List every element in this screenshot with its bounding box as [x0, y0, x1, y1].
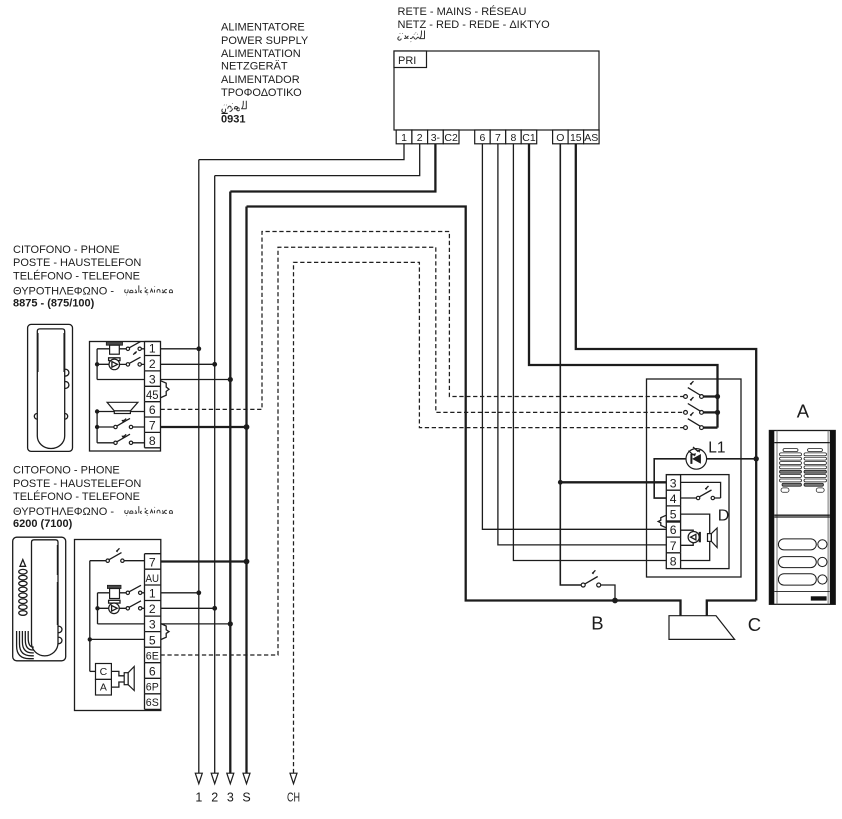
bracket at terminals 5-6 (unit D) [658, 515, 666, 527]
svg-text:POWER SUPPLY: POWER SUPPLY [221, 35, 309, 47]
label: phone 8875 multilingual caption [13, 244, 141, 298]
svg-text:45: 45 [146, 388, 159, 402]
svg-text:3-: 3- [431, 132, 441, 144]
svg-text:6E: 6E [146, 651, 159, 663]
terminal 2 (PS) [412, 130, 428, 144]
wire: lamp L1 to riser 15 [707, 458, 757, 460]
svg-text:7: 7 [495, 132, 501, 144]
terminal 1 (6200) [145, 585, 161, 601]
svg-text:8875 - (875/100): 8875 - (875/100) [13, 297, 95, 309]
junction: riser 1 at phone 8875 terminal 1 [196, 346, 201, 351]
arrowhead riser S [243, 773, 250, 784]
wire: speaker row to terminal 6 (8875) [97, 411, 144, 413]
junction: riser 2 at phone 8875 terminal 2 [212, 362, 217, 367]
wire: common rail top (8875) [96, 349, 98, 380]
phone 6200 handset drawing [13, 537, 66, 661]
terminal 7 (6200) [145, 554, 161, 570]
arrowhead riser 3 [227, 773, 234, 784]
terminal C2 (PS) [443, 130, 459, 144]
label: 0931 power supply code [221, 113, 245, 125]
switch to terminal 1 (6200) [126, 585, 144, 594]
wire: riser 1 [198, 160, 200, 774]
svg-text:ALIMENTATORE: ALIMENTATORE [221, 22, 305, 34]
switch to terminal 8 (8875) [97, 434, 144, 444]
switch to terminal 2 (6200) [126, 601, 144, 610]
junction: rail at receiver row (8875) [95, 362, 99, 366]
svg-text:CITOFONO - PHONE: CITOFONO - PHONE [13, 465, 120, 477]
arrowhead riser CH [290, 773, 297, 784]
phone 6200 body outline [75, 540, 161, 711]
junction: rail at switch row 7 (8875) [95, 425, 99, 429]
terminal 7 (8875) [145, 417, 161, 433]
svg-text:6S: 6S [146, 697, 159, 709]
junction: riser 2 at phone 6200 terminal 2 [212, 606, 217, 611]
terminal 3 (unit D) [666, 475, 680, 491]
svg-text:8: 8 [149, 434, 156, 448]
call switch 1 [684, 381, 718, 398]
entrance panel A faceplate [769, 431, 835, 605]
svg-text:7: 7 [149, 555, 156, 569]
terminal 6 (8875) [145, 402, 161, 417]
svg-text:6: 6 [479, 132, 485, 144]
wire: phone 8875 terminal 3 to riser 3 [161, 379, 231, 381]
label: arabic "mains" (drawn glyph approximation) [398, 31, 425, 42]
wire: PS 7 to door unit terminal 7 [498, 144, 666, 545]
svg-text:4: 4 [670, 492, 677, 506]
svg-text:NETZ - RED - REDE - ΔIKTYO: NETZ - RED - REDE - ΔIKTYO [398, 19, 551, 31]
terminal 8 (unit D) [670, 553, 681, 569]
entrance panel name plate [811, 596, 827, 600]
wire: PS 2 to riser 2 [215, 144, 420, 176]
svg-text:8: 8 [670, 555, 677, 569]
svg-text:A: A [100, 682, 107, 694]
svg-text:TELÉFONO - TELEFONE: TELÉFONO - TELEFONE [13, 490, 140, 503]
terminal AU (6200) [145, 569, 161, 585]
svg-text:B: B [591, 613, 603, 634]
svg-text:CH: CH [287, 791, 300, 805]
call switch 3 [684, 412, 718, 429]
wire: hook rail to terminal 5 (6200) [90, 638, 145, 640]
label: mains multilingual caption [398, 5, 551, 31]
terminal 1 (PS) [396, 130, 412, 144]
lamp L1 [686, 447, 707, 469]
receiver capsule (6200) [98, 600, 127, 613]
wire: phone 6200 terminal 2 to riser 2 [161, 607, 215, 609]
svg-text:3: 3 [149, 372, 156, 386]
wire: phone 6200 terminal 3 to riser 3 [161, 623, 231, 625]
svg-text:3: 3 [670, 476, 677, 490]
wire: PS 6 to door unit terminal 6 [482, 144, 666, 530]
phone 6200 earpiece holes [19, 569, 27, 615]
junction: C1 rail at switch 1 [715, 394, 720, 399]
C connection box (6200) [96, 664, 112, 680]
wire: phone 6200 terminal 1 to riser 1 [161, 592, 199, 594]
terminal 4 (unit D) [666, 490, 680, 506]
terminal 1 (8875) [145, 342, 161, 356]
label: phone 6200 multilingual caption [13, 465, 141, 519]
svg-text:5: 5 [149, 633, 156, 647]
label: arabic "intercom unit" (drawn glyph approximation) [125, 285, 173, 295]
svg-text:ΘΥΡΟΤΗΛΕΦΩΝΟ -: ΘΥΡΟΤΗΛΕΦΩΝΟ - [13, 286, 114, 298]
junction: C1 rail at switch 2 [715, 410, 720, 415]
junction: riser S at phone 8875 terminal 7 [244, 424, 250, 430]
junction: rail at terminal 5 row (6200) [88, 637, 92, 641]
label: arabic "power supply" (drawn glyph approximation) [222, 101, 247, 113]
terminal 5 (6200) [145, 632, 161, 648]
label: power supply multilingual caption [221, 22, 309, 100]
wire: PS 8 to door unit terminal 8 [513, 144, 666, 561]
wire: terminal 5 to terminal 8 loop (unit D) [681, 514, 710, 560]
svg-text:8: 8 [510, 132, 516, 144]
bracket at terminals 3-45 (8875) [161, 381, 169, 398]
microphone (unit D) [681, 530, 701, 545]
wire: riser 2 [214, 176, 216, 774]
svg-text:2: 2 [417, 132, 423, 144]
svg-text:6: 6 [149, 403, 156, 417]
entrance panel call buttons [778, 539, 827, 585]
junction: lamp L1 at riser 15 [754, 456, 759, 461]
svg-text:D: D [718, 507, 730, 524]
wire: PS 15 to lamp feed riser [576, 144, 756, 601]
svg-text:3: 3 [149, 618, 156, 632]
junction: common rail at receiver row (6200) [95, 606, 99, 610]
junction: rail at speaker row (8875) [95, 409, 99, 413]
svg-text:3: 3 [227, 791, 234, 805]
terminal 5 (unit D) [666, 506, 681, 522]
terminal 8 (PS) [506, 130, 522, 144]
wire: C box to speaker (6200) [111, 671, 124, 675]
terminal 6P (6200) [145, 678, 161, 694]
svg-text:POSTE - HAUSTELEFON: POSTE - HAUSTELEFON [13, 478, 141, 490]
svg-text:C2: C2 [444, 132, 458, 144]
receiver capsule (8875) [97, 358, 126, 370]
wire: branch O line to door unit terminal 3 [560, 481, 666, 483]
svg-text:L1: L1 [708, 440, 725, 457]
svg-text:PRI: PRI [398, 55, 416, 67]
svg-text:AS: AS [584, 132, 598, 144]
wire: A box to speaker (6200) [111, 682, 124, 687]
terminal C1 (PS) [521, 130, 537, 144]
wire: dashed CH2 from phone 6200 terminal 6E to door switch 2 [161, 247, 684, 655]
hook switch to terminal 7 (6200) [90, 548, 145, 562]
terminal 2 (8875) [145, 356, 161, 372]
door open switch (unit D) [681, 486, 721, 500]
entrance panel speaker grille [780, 449, 827, 493]
svg-text:1: 1 [149, 587, 156, 601]
svg-text:1: 1 [195, 791, 202, 805]
svg-text:ALIMENTATION: ALIMENTATION [221, 48, 301, 60]
wire: phone 8875 terminal 2 to riser 2 [161, 363, 215, 365]
junction: riser 1 at phone 6200 terminal 1 [196, 590, 201, 595]
terminal 3- (PS) [428, 130, 444, 144]
terminal 3 (6200) [145, 616, 161, 632]
svg-text:2: 2 [149, 357, 156, 371]
svg-text:7: 7 [149, 419, 156, 433]
wire: phone 8875 terminal 7 to riser S [161, 426, 247, 428]
wire: PS 3- to riser 3 [230, 144, 435, 192]
svg-text:6200 (7100): 6200 (7100) [13, 518, 73, 530]
wire: PS 1 to riser 1 [199, 144, 404, 160]
arrowhead riser 1 [195, 773, 202, 784]
svg-text:CITOFONO - PHONE: CITOFONO - PHONE [13, 244, 120, 256]
wire: S branch to door unit common [247, 207, 681, 616]
loudspeaker (unit D) [708, 528, 718, 548]
svg-text:7: 7 [670, 539, 677, 553]
svg-text:0931: 0931 [221, 113, 245, 125]
power supply U1 body [394, 51, 599, 130]
entrance panel bottom strip line [774, 590, 830, 592]
wire: common rail bottom (8875) [96, 412, 98, 443]
svg-text:RETE - MAINS - RÉSEAU: RETE - MAINS - RÉSEAU [398, 5, 527, 18]
speaker unit D body [666, 475, 729, 569]
switch to terminal 7 (8875) [97, 418, 144, 428]
wire: dashed CH1 from phone 8875 terminal 6 to door switch 1 [161, 232, 684, 410]
terminal 8 (8875) [145, 432, 161, 448]
terminal 2 (6200) [145, 601, 161, 617]
svg-text:1: 1 [149, 342, 156, 356]
wire: terminal 3 to switch (unit D) [681, 482, 721, 498]
arrowhead riser 2 [211, 773, 218, 784]
terminal 6 (6200) [145, 663, 161, 679]
terminal 6E (6200) [145, 647, 161, 663]
svg-text:ΘΥΡΟΤΗΛΕΦΩΝΟ -: ΘΥΡΟΤΗΛΕΦΩΝΟ - [13, 506, 114, 518]
terminal AS (PS) [584, 130, 600, 144]
svg-text:5: 5 [670, 507, 677, 521]
svg-text:NETZGERÄT: NETZGERÄT [221, 60, 288, 72]
terminal 6 (PS) [475, 130, 491, 144]
svg-text:C1: C1 [522, 132, 536, 144]
PRI primary input box [394, 51, 427, 68]
wire: riser 3 [229, 192, 231, 774]
loudspeaker (8875) [107, 402, 138, 413]
junction: riser S at phone 6200 terminal 7 [244, 559, 250, 565]
svg-text:6: 6 [670, 523, 677, 537]
buzzer (6200) [98, 585, 127, 598]
svg-text:C: C [100, 666, 108, 678]
wire: riser S [245, 207, 247, 774]
conduit C [669, 616, 735, 640]
svg-text:O: O [556, 132, 564, 144]
svg-text:TELÉFONO - TELEFONE: TELÉFONO - TELEFONE [13, 269, 140, 282]
svg-text:6: 6 [149, 664, 156, 678]
svg-text:S: S [242, 791, 250, 805]
phone 6200 cord hatching [17, 631, 34, 659]
terminal 15 (PS) [568, 130, 584, 144]
wire: common rail to terminal 3 (6200) [98, 623, 145, 625]
wire: hook rail (6200) [89, 561, 91, 672]
svg-text:1: 1 [401, 132, 407, 144]
wire: lamp L1 to door terminal 4 [654, 459, 686, 498]
bracket at terminals 3-5 (6200) [161, 624, 169, 640]
wire: common from conduit up to lamp riser [707, 601, 756, 616]
wire: buzzer-receiver common rail (6200) [97, 593, 99, 624]
wire: PS O down to button B [560, 144, 581, 585]
door unit enclosure box [647, 379, 742, 577]
terminal 6S (6200) [145, 694, 161, 710]
wire: phone 8875 terminal 1 to riser 1 [161, 348, 199, 350]
terminal 45 (8875) [145, 386, 161, 402]
svg-text:ALIMENTADOR: ALIMENTADOR [221, 74, 300, 86]
svg-text:POSTE - HAUSTELEFON: POSTE - HAUSTELEFON [13, 257, 141, 269]
svg-text:AU: AU [146, 573, 160, 585]
junction: O line and terminal 3 branch [558, 480, 563, 485]
push button B [581, 570, 615, 599]
svg-text:C: C [748, 614, 761, 635]
terminal O (PS) [553, 130, 569, 144]
svg-text:2: 2 [211, 791, 218, 805]
wire: phone 6200 terminal 7 to riser S [161, 560, 247, 562]
svg-text:6P: 6P [146, 682, 159, 694]
wire: rail to terminal 3 (8875) [97, 379, 144, 381]
junction: button B at common line [612, 598, 618, 604]
wire: PS C1 to call switch rail [529, 144, 718, 428]
call switch 2 [684, 397, 718, 414]
phone 8875 body outline [90, 342, 161, 452]
svg-text:15: 15 [570, 132, 582, 144]
loudspeaker (6200) [124, 667, 134, 691]
terminal 7 (unit D) [666, 537, 680, 553]
switch to terminal 2 (8875) [126, 357, 144, 366]
A connection box (6200) [96, 679, 112, 695]
buzzer (8875) [97, 342, 126, 354]
terminal 7 (PS) [490, 130, 506, 144]
svg-text:A: A [797, 401, 810, 422]
svg-text:ΤΡΟΦΟΔΟΤΙΚΟ: ΤΡΟΦΟΔΟΤΙΚΟ [221, 87, 302, 99]
wire: dashed CH riser to door switch 3 [294, 262, 684, 773]
junction: riser 3 at phone 6200 terminal 3 [228, 621, 233, 626]
terminal 6 (unit D) [666, 522, 680, 538]
switch to terminal 1 (8875) [126, 342, 144, 355]
phone 8875 handset drawing [28, 324, 73, 451]
wire: hook rail to C box (6200) [90, 670, 96, 672]
svg-text:2: 2 [149, 602, 156, 616]
terminal 3 (8875) [145, 371, 161, 387]
junction: riser 3 at phone 8875 terminal 3 [228, 377, 233, 382]
label: arabic "intercom unit" second (drawn glyph approximation) [125, 506, 173, 516]
